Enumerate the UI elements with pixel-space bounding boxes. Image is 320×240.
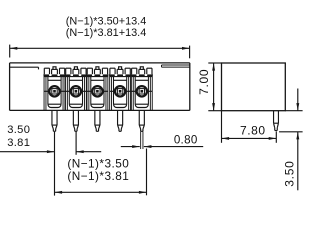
housing left top step <box>10 67 39 69</box>
pin 4 front view <box>118 110 123 131</box>
housing outline front view <box>10 63 190 111</box>
extension line pin 2 <box>75 132 77 155</box>
terminal unit 3 body walls <box>87 77 108 111</box>
terminal unit 4 body walls <box>110 77 131 111</box>
terminal unit 4 castellated top <box>110 67 131 77</box>
terminal unit 2 body walls <box>65 77 86 111</box>
bottom dimension line <box>55 191 147 194</box>
side view housing rectangle <box>222 63 286 111</box>
pitch dimension second arrow <box>76 150 101 153</box>
pin 2 front view <box>73 110 78 131</box>
terminal unit 2 screw <box>71 86 82 97</box>
0.80 dimension arrows <box>121 145 203 148</box>
terminal unit 1 body walls <box>44 77 65 111</box>
svg-text:(N−1)*3.50+13.4: (N−1)*3.50+13.4 <box>66 15 147 27</box>
side view pin <box>274 111 279 131</box>
svg-text:(N−1)*3.81+13.4: (N−1)*3.81+13.4 <box>66 27 147 39</box>
terminal unit 1 screw <box>49 86 60 97</box>
svg-text:(N−1)*3.81: (N−1)*3.81 <box>67 169 129 183</box>
terminal unit 1 castellated top <box>44 67 65 77</box>
terminal unit 5 castellated top <box>131 67 152 77</box>
terminal unit 2 castellated top <box>65 67 86 77</box>
svg-text:3.81: 3.81 <box>7 137 30 149</box>
top dimension extension line right <box>189 46 191 59</box>
pin 1 front view <box>52 110 57 131</box>
housing right top step <box>162 65 190 67</box>
terminal unit 5 screw <box>137 86 148 97</box>
pin 5 front view <box>139 110 144 131</box>
terminal unit 3 castellated top <box>87 67 108 77</box>
svg-text:3.50: 3.50 <box>283 161 297 187</box>
svg-text:7.00: 7.00 <box>197 69 211 95</box>
7.80 dimension line <box>222 137 277 140</box>
bottom dimension right extension line <box>146 149 148 196</box>
3.50 right dimension arrows <box>296 89 299 191</box>
7.00 extension lines <box>208 63 221 111</box>
svg-text:0.80: 0.80 <box>174 133 198 146</box>
pin 3 front view <box>95 110 100 131</box>
top dimension extension line left <box>9 45 11 58</box>
top dimension line overall width <box>10 47 190 50</box>
svg-text:3.50: 3.50 <box>7 124 30 136</box>
terminal unit 4 screw <box>115 86 126 97</box>
extension line pin 1 <box>54 132 56 196</box>
terminal unit 5 body walls <box>131 77 152 111</box>
3.50 right extension lines <box>279 111 303 132</box>
terminal unit 3 screw <box>92 86 103 97</box>
svg-text:7.80: 7.80 <box>240 124 266 138</box>
7.80 extension lines <box>222 111 277 143</box>
7.00 dimension line <box>212 63 215 111</box>
pin 5 tip extension lines <box>141 131 143 149</box>
pitch dimension leader line <box>0 150 55 153</box>
